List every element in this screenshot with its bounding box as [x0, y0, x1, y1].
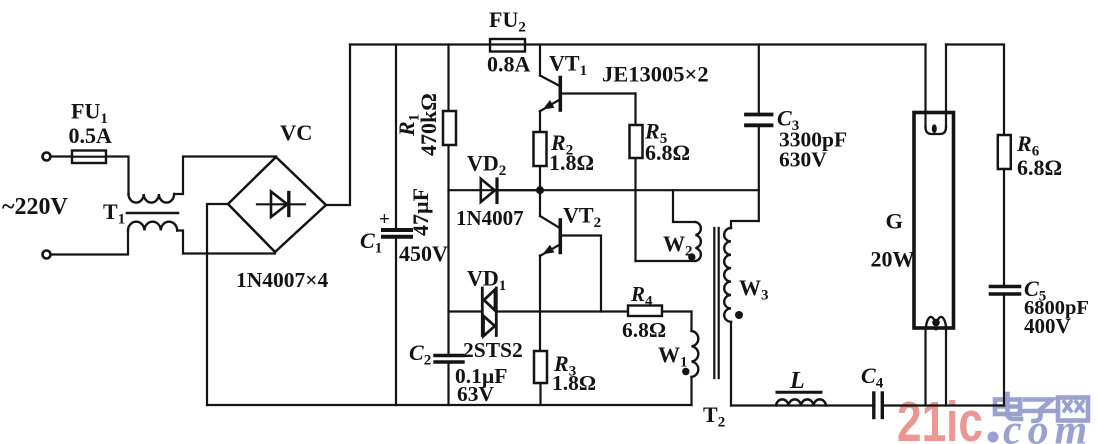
inductor L [776, 392, 826, 405]
wire: T1 primary to bridge AC1 [174, 157, 276, 195]
svg-text:63V: 63V [457, 382, 495, 406]
fuse FU2 [490, 39, 525, 52]
resistor R1 [443, 111, 456, 145]
wire: diac line right to R4 [498, 310, 629, 312]
wire: VD2 anode stub [449, 189, 540, 191]
wire: diac line left [449, 310, 482, 312]
svg-text:1.8Ω: 1.8Ω [549, 150, 594, 175]
wire: FU1 to T1 primary [106, 157, 129, 195]
node: half-bridge midpoint junction [536, 186, 544, 194]
input terminal lower [43, 251, 51, 259]
wire: top rail (DC+) [350, 43, 926, 45]
wire: upper terminal to FU1 [51, 155, 72, 157]
svg-text:470kΩ: 470kΩ [416, 93, 441, 156]
wire: lamp bottom circuit [731, 404, 1004, 406]
capacitor C1 plates [383, 230, 411, 237]
svg-text:VC: VC [280, 120, 313, 145]
wire: bottom rail (DC-) [207, 404, 692, 406]
resistor R6 [998, 135, 1011, 285]
transformer T1 secondary winding [128, 222, 177, 231]
watermark 电子网 characters [995, 394, 1088, 421]
transistor VT2 [540, 193, 560, 351]
winding W3 [724, 221, 759, 406]
svg-text:1N4007×4: 1N4007×4 [236, 268, 329, 292]
capacitor C3 branch [758, 45, 760, 222]
capacitor C2 plates [435, 356, 463, 363]
svg-text:+: + [379, 209, 390, 230]
svg-text:20W: 20W [871, 247, 915, 272]
wire: lamp right pin to R6 [946, 45, 1004, 136]
wire: bridge DC- down to bottom rail [207, 204, 228, 405]
bridge rectifier VC body [228, 157, 326, 252]
lamp pin bottom-left [924, 328, 926, 406]
wire: C1 branch vertical [395, 45, 397, 406]
svg-text:47µF: 47µF [408, 188, 433, 236]
winding W1 [692, 312, 699, 406]
wire: midpoint line [497, 189, 759, 191]
svg-text:21ic: 21ic [897, 390, 983, 444]
resistor R4 [628, 306, 692, 317]
wire: C5 to lamp bottom wire [1003, 294, 1005, 406]
svg-text:2STS2: 2STS2 [463, 338, 523, 362]
transformer T2 core [714, 228, 718, 378]
svg-text:~220V: ~220V [2, 194, 68, 220]
capacitor C3 plates [746, 115, 772, 126]
svg-text:6.8Ω: 6.8Ω [622, 318, 666, 342]
lamp pin bottom-right [945, 328, 947, 406]
wire: VT1 base line [562, 92, 636, 94]
capacitor C4 [874, 393, 883, 418]
svg-text:0.5A: 0.5A [69, 123, 113, 148]
svg-text:630V: 630V [779, 148, 827, 172]
diode VD2 [481, 179, 497, 203]
svg-text:L: L [789, 368, 805, 394]
fuse FU1 [72, 151, 106, 164]
resistor R5 with vertical [630, 94, 643, 262]
watermark 21ic logo [897, 390, 983, 444]
lamp pin top-left [924, 45, 926, 128]
svg-text:6.8Ω: 6.8Ω [1017, 155, 1062, 180]
diac VD1 [482, 288, 496, 336]
lamp filament bottom [926, 317, 946, 329]
wire: T1 secondary to bridge AC2 [177, 231, 275, 254]
resistor R3 [534, 351, 547, 405]
input terminal upper [43, 153, 51, 161]
lamp pin top-right [945, 45, 947, 128]
node: W2 polarity dot [688, 253, 695, 260]
wire: lower terminal to T1 secondary [51, 231, 128, 255]
svg-text:com: com [1003, 408, 1093, 444]
resistor R2 [534, 132, 547, 187]
wire: C2 to bottom rail [447, 362, 449, 405]
wire: VT2 base line [562, 236, 602, 312]
transistor VT1 [540, 45, 560, 133]
svg-text:6.8Ω: 6.8Ω [645, 140, 690, 165]
svg-text:G: G [886, 209, 904, 234]
winding W2 [636, 190, 701, 261]
lamp G tube [914, 113, 954, 329]
svg-text:450V: 450V [399, 241, 448, 266]
capacitor C5 plates [991, 287, 1020, 295]
wire: R1 branch vertical [447, 45, 449, 356]
transformer T1 core [127, 212, 178, 215]
svg-text:JE13005×2: JE13005×2 [602, 62, 709, 87]
node: W3 polarity dot [735, 311, 743, 319]
svg-text:400V: 400V [1024, 314, 1071, 338]
watermark .com script [988, 408, 1094, 444]
svg-text:1N4007: 1N4007 [456, 206, 524, 230]
wire: bridge DC+ riser to top rail [326, 45, 350, 206]
bridge internal diode [257, 192, 305, 218]
svg-text:1.8Ω: 1.8Ω [552, 371, 596, 395]
lamp filament top [926, 124, 947, 134]
node: W1 polarity dot [682, 368, 689, 375]
svg-text:0.8A: 0.8A [487, 52, 531, 77]
transformer T1 primary winding [129, 194, 175, 203]
